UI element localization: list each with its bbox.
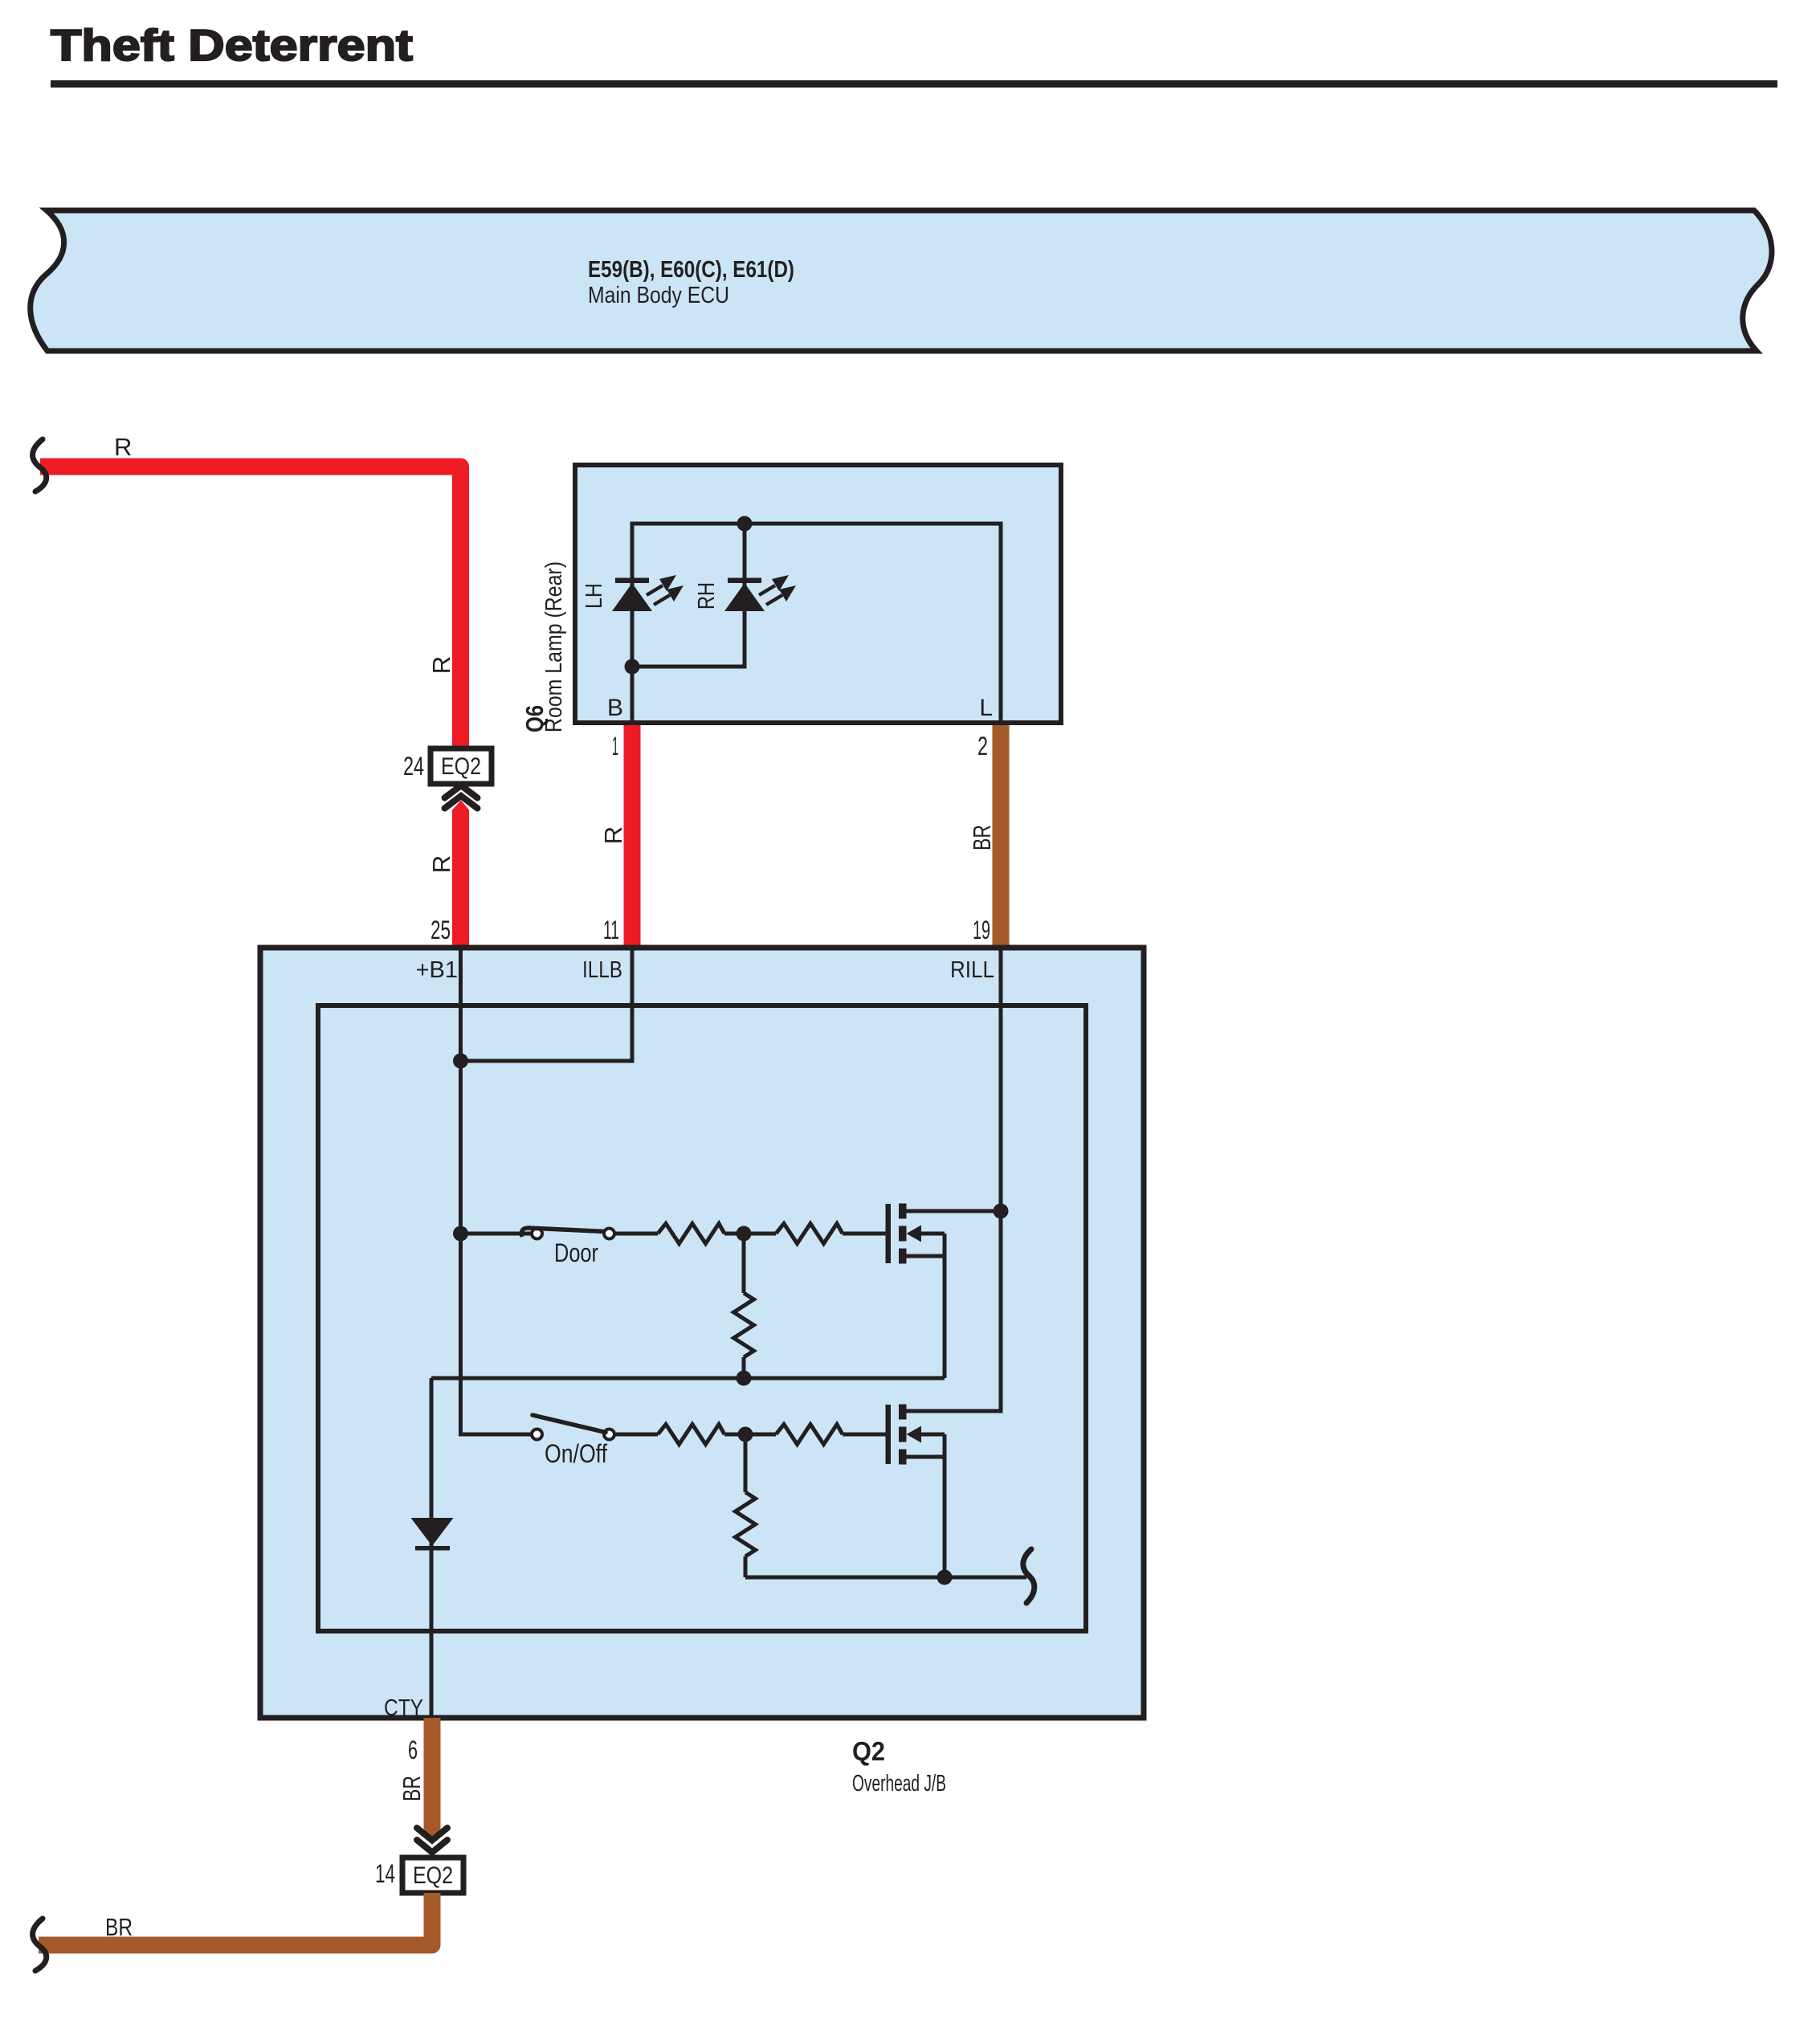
- wire RILL internal: [907, 948, 1002, 1411]
- svg-text:14: 14: [375, 1859, 395, 1888]
- transistor Q-upper MOSFET: [886, 1204, 1002, 1379]
- transistor Q-lower MOSFET: [886, 1405, 945, 1578]
- svg-text:LH: LH: [582, 583, 607, 609]
- wire +B1 internal: [461, 948, 533, 1434]
- node mid junction: [737, 1226, 752, 1242]
- wire On/Off row 2: [615, 1433, 658, 1437]
- connector 14 EQ2: [402, 1858, 463, 1893]
- node ILLB junction: [453, 1054, 468, 1069]
- svg-text:EQ2: EQ2: [413, 1862, 453, 1889]
- switch Door contact 1: [532, 1229, 542, 1239]
- wire R (red) from ECU: [40, 467, 461, 748]
- svg-text:E59(B), E60(C), E61(D): E59(B), E60(C), E61(D): [588, 257, 794, 283]
- LED LH: [612, 575, 684, 611]
- wire bus top: [632, 524, 1001, 723]
- chevron down 1: [417, 1828, 447, 1841]
- svg-text:B: B: [607, 695, 623, 721]
- connector 24 EQ2: [431, 748, 492, 784]
- svg-text:R: R: [427, 656, 455, 674]
- wire to gate: [843, 1433, 886, 1437]
- svg-text:24: 24: [403, 752, 424, 781]
- LED RH: [724, 575, 796, 611]
- chevron up 1: [445, 785, 478, 798]
- wire BR bottom: [39, 1893, 432, 1945]
- svg-text:BR: BR: [968, 825, 996, 850]
- chevron down 2: [417, 1840, 447, 1853]
- wire CTY internal: [430, 1378, 434, 1718]
- resistor mid vertical: [742, 1234, 746, 1293]
- wire RH branch: [632, 524, 745, 667]
- svg-text:BR: BR: [398, 1776, 426, 1801]
- resistor R-door-2: [776, 1224, 843, 1244]
- switch Door blade: [521, 1228, 606, 1237]
- svg-text:BR: BR: [105, 1913, 133, 1941]
- node lower junction: [937, 1570, 953, 1585]
- svg-text:11: 11: [603, 916, 619, 944]
- wire horizontal lower: [745, 1576, 1026, 1580]
- switch On/Off blade: [533, 1415, 606, 1433]
- svg-text:RILL: RILL: [950, 957, 994, 983]
- node Door row junction: [453, 1226, 468, 1242]
- node bus junction: [737, 516, 753, 532]
- wire: [724, 1232, 776, 1236]
- wire horizontal mid: [431, 1377, 945, 1381]
- svg-text:19: 19: [973, 916, 990, 944]
- node mid-bottom junction: [737, 1371, 752, 1386]
- svg-text:Theft Deterrent: Theft Deterrent: [51, 20, 413, 70]
- svg-text:Overhead J/B: Overhead J/B: [852, 1771, 946, 1797]
- wire: [724, 1433, 776, 1437]
- ECU band E59/E60/E61 Main Body ECU: [31, 210, 1772, 351]
- svg-text:25: 25: [431, 916, 451, 944]
- switch On/Off contact 1: [532, 1430, 542, 1440]
- resistor lower vertical: [744, 1434, 748, 1492]
- switch On/Off contact 2: [604, 1430, 614, 1440]
- resistor R-onoff-2: [776, 1425, 843, 1445]
- svg-text:6: 6: [408, 1735, 418, 1764]
- svg-text:EQ2: EQ2: [441, 753, 481, 780]
- title rule: [51, 80, 1777, 88]
- wire break squiggle: [33, 1919, 47, 1971]
- Q6 Room Lamp (Rear) box: [575, 465, 1061, 723]
- Q2 Overhead J/B outer box: [260, 948, 1144, 1718]
- Q2 inner box: [318, 1005, 1086, 1631]
- svg-text:1: 1: [612, 732, 618, 761]
- wire Door row 2: [615, 1232, 658, 1236]
- wire R (Q6 B to ILLB): [624, 725, 641, 949]
- wire to gate: [843, 1232, 886, 1236]
- ground squiggle: [1023, 1549, 1034, 1603]
- svg-text:+B1: +B1: [416, 957, 458, 983]
- wire BR (Q6 L to RILL): [993, 725, 1010, 949]
- node lower junction: [625, 659, 640, 675]
- switch Door contact 2: [604, 1229, 614, 1239]
- svg-text:2: 2: [977, 732, 988, 761]
- wire R lower segment to Q2: [452, 801, 469, 950]
- svg-text:R: R: [114, 433, 132, 461]
- svg-text:L: L: [979, 695, 993, 721]
- wire BR (CTY out): [424, 1718, 441, 1838]
- resistor R-door-1: [658, 1224, 724, 1244]
- svg-text:On/Off: On/Off: [545, 1439, 607, 1468]
- svg-text:R: R: [427, 855, 455, 873]
- svg-text:Main Body ECU: Main Body ECU: [588, 283, 729, 308]
- resistor R-onoff-1: [658, 1425, 724, 1445]
- svg-text:Q2: Q2: [852, 1736, 885, 1766]
- node RILL junction: [994, 1204, 1009, 1219]
- svg-text:CTY: CTY: [384, 1695, 423, 1721]
- wire break squiggle: [33, 439, 47, 491]
- svg-text:RH: RH: [694, 582, 720, 610]
- svg-text:R: R: [599, 826, 627, 844]
- diode D1: [411, 1518, 454, 1546]
- svg-text:ILLB: ILLB: [582, 957, 622, 983]
- wire ILLB internal: [461, 948, 633, 1061]
- chevron up 2: [445, 796, 478, 809]
- wire On/Off row: [461, 1433, 533, 1437]
- svg-text:Door: Door: [554, 1238, 598, 1267]
- node lower mid junction: [738, 1427, 753, 1442]
- wire Door row: [461, 1232, 533, 1236]
